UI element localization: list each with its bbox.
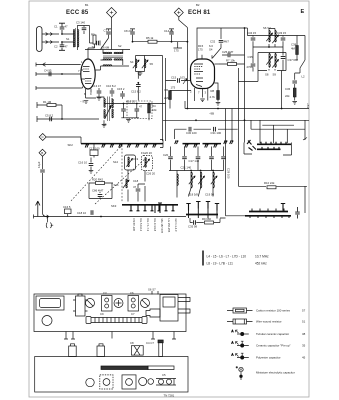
svg-text:47: 47 bbox=[65, 25, 69, 29]
terminal C5 line bbox=[37, 116, 99, 122]
bracket right bbox=[283, 143, 292, 156]
svg-text:LG 150-255: LG 150-255 bbox=[167, 219, 171, 233]
wire stub y88 bbox=[36, 86, 83, 90]
legend wire wound resistor bbox=[227, 321, 253, 323]
coil can2 a bbox=[269, 54, 270, 68]
transformer block bbox=[36, 296, 64, 310]
box C17 bbox=[90, 150, 98, 156]
wire S1 top to C3 bbox=[78, 26, 85, 51]
rail y120.3 bbox=[163, 119, 309, 121]
trimmer box 2 bbox=[128, 296, 139, 312]
svg-text:R9 680: R9 680 bbox=[202, 217, 211, 221]
wire C3 node to grid rail bbox=[84, 26, 90, 44]
coil bank L9 bbox=[201, 172, 202, 188]
svg-text:452 kHz: 452 kHz bbox=[255, 262, 267, 266]
svg-text:C17 100: C17 100 bbox=[89, 147, 100, 151]
series cap in B line bbox=[40, 170, 45, 172]
bus SK2 segment b bbox=[183, 143, 201, 145]
legend ceramic pin-up bbox=[237, 345, 249, 347]
svg-text:C19: C19 bbox=[133, 157, 139, 161]
legend polyester bbox=[237, 357, 249, 359]
svg-text:E: E bbox=[301, 9, 305, 15]
svg-text:C15: C15 bbox=[171, 76, 177, 80]
svg-text:C18 5/8: C18 5/8 bbox=[188, 192, 198, 196]
legend tubular ceramic bbox=[237, 333, 249, 335]
tube V1 top pin bbox=[88, 44, 95, 59]
heater stub 175 bbox=[174, 42, 183, 48]
trimmer circle 3 bbox=[141, 299, 150, 308]
svg-text:4M7: 4M7 bbox=[224, 40, 230, 44]
chassis B outline bbox=[35, 357, 188, 393]
series capacitor C30 bbox=[189, 127, 191, 132]
svg-text:FG20 20: FG20 20 bbox=[141, 151, 152, 155]
legs bbox=[66, 332, 174, 340]
adjust arrow T2 bbox=[105, 105, 111, 118]
svg-text:C32: C32 bbox=[210, 40, 216, 44]
svg-text:47: 47 bbox=[133, 185, 137, 189]
svg-text:KG 9.4-9.8: KG 9.4-9.8 bbox=[153, 219, 157, 232]
wire column drops from SK2 bbox=[171, 147, 224, 157]
wire stub y64.5 with arrow bbox=[36, 63, 81, 67]
T2 leads bbox=[97, 97, 166, 124]
svg-text:175: 175 bbox=[174, 49, 179, 53]
svg-text:4.7k: 4.7k bbox=[210, 95, 216, 99]
cylinder component bbox=[146, 309, 160, 317]
tube V2 internals bbox=[194, 64, 203, 87]
svg-text:TN 7281: TN 7281 bbox=[164, 394, 175, 398]
svg-text:R2: R2 bbox=[91, 33, 95, 37]
svg-text:10k: 10k bbox=[152, 108, 157, 112]
svg-text:C19 98: C19 98 bbox=[205, 192, 214, 196]
legend resistor carbon bbox=[227, 310, 253, 312]
svg-text:C17 140: C17 140 bbox=[189, 159, 200, 163]
symbol diamond node B1 bbox=[107, 8, 117, 18]
svg-text:57: 57 bbox=[302, 309, 306, 313]
svg-text:C21 140: C21 140 bbox=[181, 166, 192, 170]
coil T2 primary bbox=[104, 99, 105, 108]
svg-text:Miniature electrolytic capacit: Miniature electrolytic capacitor bbox=[256, 371, 295, 375]
coil can2 b bbox=[275, 54, 276, 68]
svg-text:R1 1M: R1 1M bbox=[43, 100, 52, 104]
right part bbox=[156, 379, 176, 386]
svg-text:S14: S14 bbox=[113, 160, 118, 164]
svg-text:MG 187-578: MG 187-578 bbox=[160, 219, 164, 234]
svg-text:C3 140: C3 140 bbox=[76, 21, 85, 25]
svg-text:SK3: SK3 bbox=[111, 204, 117, 208]
box C18 on bottom line bbox=[65, 209, 72, 214]
terminal R1 line bbox=[37, 102, 62, 108]
bank1 bar b bbox=[257, 148, 281, 150]
circles right bbox=[139, 378, 147, 386]
coil bank small bbox=[177, 174, 178, 185]
ground trimmers bbox=[138, 73, 143, 76]
connector arcs bbox=[46, 218, 53, 229]
wire node C to SK2 bbox=[46, 137, 81, 144]
capacitor C7 vertical bbox=[106, 29, 111, 38]
capacitor C25 bbox=[228, 53, 230, 58]
svg-text:C5 8.2: C5 8.2 bbox=[45, 114, 54, 118]
top pins bbox=[69, 346, 77, 357]
svg-text:175: 175 bbox=[198, 48, 203, 52]
gram sub circuit bbox=[190, 216, 245, 223]
capacitor C1 bbox=[59, 23, 65, 34]
caps under AVC line bbox=[121, 104, 139, 118]
coil can1 b bbox=[275, 31, 276, 42]
svg-text:51: 51 bbox=[302, 320, 306, 324]
svg-text:S2: S2 bbox=[118, 44, 122, 48]
svg-text:B1: B1 bbox=[85, 3, 89, 7]
symbol diamond node B2 bbox=[174, 8, 183, 17]
svg-text:R20 R42: R20 R42 bbox=[92, 178, 103, 182]
svg-text:C18: C18 bbox=[133, 179, 139, 183]
svg-text:10,7 MHz: 10,7 MHz bbox=[255, 255, 269, 259]
circle b1 bbox=[86, 378, 94, 386]
resistor R1 bbox=[47, 104, 56, 107]
svg-text:C28 100: C28 100 bbox=[227, 168, 231, 179]
capacitor C13 bbox=[97, 91, 102, 93]
capacitor C15 osc bbox=[178, 78, 180, 83]
mechanical link dashed bbox=[71, 145, 122, 201]
svg-text:45: 45 bbox=[302, 356, 306, 360]
svg-text:R5 1k: R5 1k bbox=[146, 36, 154, 40]
svg-text:A: A bbox=[232, 341, 234, 345]
svg-text:C4 C7: C4 C7 bbox=[146, 341, 154, 345]
svg-text:B2: B2 bbox=[196, 3, 200, 7]
line y129.2 right bbox=[251, 120, 305, 129]
capacitor C3 bbox=[83, 26, 85, 35]
bank2 bar b bbox=[245, 215, 291, 217]
wire stub y74 bbox=[36, 72, 81, 76]
svg-text:C6 6M: C6 6M bbox=[101, 46, 110, 50]
switch arrow osc bbox=[183, 79, 187, 85]
wire y28 top bbox=[197, 28, 247, 60]
wire bank rail y170.5 bbox=[169, 170, 224, 172]
svg-text:C25 4M7: C25 4M7 bbox=[222, 50, 234, 54]
svg-text:C16 10: C16 10 bbox=[78, 161, 87, 165]
box b2 bbox=[122, 375, 136, 389]
svg-text:C18 10: C18 10 bbox=[77, 211, 86, 215]
svg-text:C15 8.2: C15 8.2 bbox=[131, 90, 141, 94]
resistor R12 bbox=[296, 46, 299, 55]
series capacitor C35g bbox=[194, 220, 196, 225]
bus y49 bbox=[85, 49, 130, 51]
resistor R5 bbox=[148, 40, 157, 43]
svg-text:35: 35 bbox=[302, 344, 306, 348]
svg-text:S5: S5 bbox=[150, 62, 154, 66]
bank2 bar a bbox=[249, 211, 288, 213]
capacitor C14 bbox=[169, 29, 174, 42]
resistor R8 bbox=[217, 91, 220, 100]
vertical x174.6 bbox=[174, 129, 176, 139]
capacitor col2 bbox=[182, 157, 187, 159]
resistor 22k bbox=[293, 88, 296, 97]
vertical band labels bbox=[132, 219, 178, 234]
inner bar bbox=[101, 366, 148, 370]
resistor R7 bbox=[228, 63, 237, 66]
capacitor C32 bbox=[213, 28, 222, 58]
svg-text:A: A bbox=[232, 329, 234, 333]
svg-text:4M: 4M bbox=[291, 47, 296, 51]
svg-text:C34 15: C34 15 bbox=[247, 31, 256, 35]
capacitor C36 branch bbox=[292, 81, 297, 83]
svg-text:S15: S15 bbox=[114, 183, 119, 187]
line y129.2 left bbox=[175, 128, 238, 130]
bank1 contact arms bbox=[247, 140, 286, 151]
switch arm S2 bbox=[101, 38, 109, 50]
wire y35.5 right bus bbox=[247, 36, 305, 46]
svg-text:B: B bbox=[41, 151, 43, 155]
resistor R9 bbox=[205, 221, 214, 224]
svg-text:C86 4M7: C86 4M7 bbox=[92, 189, 104, 193]
svg-text:L8 - L9 - L7B - L11: L8 - L9 - L7B - L11 bbox=[207, 262, 234, 266]
svg-text:R8: R8 bbox=[211, 89, 215, 93]
bank1 bar a bbox=[257, 143, 291, 145]
tube V1 internals bbox=[83, 67, 90, 72]
svg-text:C6: C6 bbox=[130, 291, 134, 295]
terminal right top bbox=[281, 204, 285, 211]
capacitor C35 bbox=[251, 64, 256, 66]
svg-text:C14 99: C14 99 bbox=[164, 29, 173, 33]
capacitor C4 bbox=[49, 72, 51, 77]
wire left pins bbox=[81, 70, 85, 79]
capacitor C8 bbox=[130, 29, 135, 42]
rail y108.5 bbox=[185, 101, 309, 109]
svg-text:Ceramic capacitor "Pin-up": Ceramic capacitor "Pin-up" bbox=[256, 344, 291, 348]
svg-text:C7: C7 bbox=[131, 312, 135, 316]
tuning coil box 1 bbox=[125, 155, 136, 170]
svg-text:R7 10k: R7 10k bbox=[226, 59, 235, 63]
tube V2 pins bbox=[195, 55, 212, 101]
svg-text:R6: R6 bbox=[165, 88, 169, 92]
resistor R4 bbox=[148, 104, 151, 113]
heater line y98 bbox=[86, 89, 97, 98]
right block bbox=[160, 295, 178, 322]
resistor R2 bbox=[93, 35, 96, 44]
wire C15 branch bbox=[137, 72, 139, 101]
svg-text:ECH 81: ECH 81 bbox=[188, 10, 211, 16]
svg-text:C33 15: C33 15 bbox=[277, 31, 286, 35]
wire node B down bbox=[43, 156, 47, 216]
coil can1 a bbox=[269, 31, 270, 42]
node C bbox=[39, 134, 46, 141]
svg-text:C35: C35 bbox=[248, 55, 254, 59]
svg-text:C8 270: C8 270 bbox=[124, 29, 133, 33]
bus gram thick bbox=[186, 214, 218, 216]
coil anode bbox=[103, 65, 112, 66]
bracket left bbox=[244, 143, 252, 155]
svg-text:C31 100: C31 100 bbox=[211, 131, 222, 135]
short y125 bbox=[262, 124, 294, 126]
terminal capacitor right bbox=[297, 207, 299, 219]
trimmer box 1 bbox=[102, 296, 113, 312]
capacitor C16a bbox=[121, 109, 126, 111]
svg-text:L4 - L5 - L6 - L7 - L7D - L10: L4 - L5 - L6 - L7 - L7D - L10 bbox=[207, 255, 247, 259]
bracket left of mid bank bbox=[160, 140, 163, 148]
svg-text:L2: L2 bbox=[302, 75, 306, 79]
capacitor C2 bbox=[59, 42, 65, 50]
svg-text:175: 175 bbox=[171, 86, 176, 90]
trimmer circle 2 bbox=[114, 299, 123, 308]
svg-text:Tubular ceramic capacitor: Tubular ceramic capacitor bbox=[256, 332, 289, 336]
wire vertical x225 bbox=[225, 109, 227, 216]
wires trimmers bbox=[136, 56, 163, 72]
vertical pair x162.5 x165.5 bbox=[163, 56, 191, 142]
capacitor C37 bbox=[281, 57, 286, 59]
circle left bbox=[42, 316, 52, 326]
wire grid y43 bbox=[90, 42, 96, 44]
svg-text:S4: S4 bbox=[130, 60, 134, 64]
svg-text:GO 1.1-2.0: GO 1.1-2.0 bbox=[174, 219, 178, 232]
bus SK2 segment c bbox=[203, 143, 222, 145]
SK3 contact flags bbox=[130, 205, 175, 211]
svg-text:C5: C5 bbox=[162, 373, 166, 377]
part mid-left bbox=[76, 296, 86, 316]
capacitor grid bbox=[97, 41, 99, 46]
svg-text:C35 98: C35 98 bbox=[188, 225, 197, 229]
node B bbox=[39, 149, 46, 156]
wire diamond B2 feeder bbox=[179, 17, 188, 109]
bus SK3 thick bbox=[122, 204, 178, 206]
capacitor C16m bbox=[89, 164, 94, 166]
svg-text:C16 10: C16 10 bbox=[126, 100, 135, 104]
svg-text:C4 95: C4 95 bbox=[44, 69, 52, 73]
wire grid rail y41.7 bbox=[133, 41, 188, 43]
svg-text:C13 47: C13 47 bbox=[92, 84, 101, 88]
svg-text:47: 47 bbox=[65, 45, 69, 49]
svg-text:C26 20: C26 20 bbox=[146, 172, 155, 176]
capacitor C15 bbox=[120, 94, 125, 96]
ground heater bbox=[84, 101, 89, 104]
svg-text:C20: C20 bbox=[163, 153, 169, 157]
wire antenna upper bbox=[42, 33, 59, 36]
svg-text:C1: C1 bbox=[54, 25, 58, 29]
svg-text:2M2: 2M2 bbox=[164, 96, 170, 100]
svg-text:Carbon resistor 100 series: Carbon resistor 100 series bbox=[256, 309, 290, 313]
arrow up ground bbox=[36, 201, 40, 217]
tube V2 envelope bbox=[191, 59, 215, 89]
tube V1 envelope bbox=[81, 59, 95, 89]
svg-text:R10 22k: R10 22k bbox=[264, 181, 275, 185]
svg-text:A: A bbox=[232, 353, 234, 357]
svg-text:C10 8.2: C10 8.2 bbox=[106, 84, 116, 88]
svg-text:+B1: +B1 bbox=[306, 103, 310, 108]
coil S16 bbox=[126, 179, 127, 188]
svg-text:38: 38 bbox=[302, 332, 306, 336]
svg-text:C8: C8 bbox=[130, 341, 134, 345]
svg-text:C15 2: C15 2 bbox=[117, 87, 125, 91]
svg-text:S8: S8 bbox=[265, 73, 269, 77]
wires S2 ends bbox=[101, 50, 123, 66]
trimmer S5 bbox=[142, 59, 148, 68]
wire diamond B1 feeder bbox=[111, 18, 113, 50]
svg-text:C16 5: C16 5 bbox=[63, 205, 71, 209]
svg-text:C3: C3 bbox=[103, 291, 107, 295]
bus SK2 thick left bbox=[81, 143, 163, 145]
svg-text:22k: 22k bbox=[285, 94, 290, 98]
trimmer circle 1 bbox=[86, 299, 95, 308]
wire antenna lower bbox=[42, 41, 59, 44]
svg-text:C36: C36 bbox=[285, 87, 291, 91]
vertical join x62 bbox=[61, 105, 63, 119]
svg-text:Wire wound resistor: Wire wound resistor bbox=[256, 320, 282, 324]
resistor R6h bbox=[169, 91, 172, 100]
can2 to left rail bbox=[238, 68, 258, 186]
capacitor C5 bbox=[50, 117, 52, 122]
svg-text:S9: S9 bbox=[273, 73, 277, 77]
coil T2 secondary bbox=[112, 99, 113, 108]
wire to T1 bbox=[62, 34, 74, 42]
svg-text:C2: C2 bbox=[54, 45, 58, 49]
wire tube anode to bus bbox=[96, 66, 130, 70]
dashed box C16 R4 bbox=[127, 101, 152, 119]
wire bottom main bbox=[34, 215, 187, 219]
svg-text:ECC 85: ECC 85 bbox=[66, 10, 89, 16]
feeders bbox=[260, 120, 287, 143]
svg-text:103: 103 bbox=[180, 76, 185, 80]
capacitor col3 bbox=[196, 157, 201, 159]
grid leak T bbox=[99, 41, 101, 46]
tuning shaft bbox=[91, 318, 142, 323]
svg-text:S1: S1 bbox=[66, 37, 70, 41]
wire osc injection y80.5 bbox=[166, 80, 191, 82]
svg-text:C9: C9 bbox=[100, 312, 104, 316]
capacitor bottom bbox=[91, 210, 93, 215]
svg-text:C30 100: C30 100 bbox=[186, 131, 197, 135]
coil bank L11 bbox=[213, 172, 214, 188]
svg-text:S6 S7: S6 S7 bbox=[263, 26, 271, 30]
tuning coil box 2 dashed bbox=[142, 156, 153, 171]
series capacitor C31 bbox=[214, 127, 216, 132]
can2 right down bbox=[281, 71, 283, 109]
trimmer S4 bbox=[133, 59, 139, 68]
coil S2 bbox=[103, 52, 112, 53]
svg-text:SK2: SK2 bbox=[68, 143, 74, 147]
gram terminals bbox=[186, 204, 190, 211]
capacitor C10 bbox=[110, 91, 115, 93]
terminal SK3 end bbox=[153, 203, 162, 213]
chassis A outline bbox=[34, 294, 186, 332]
svg-text:Polyester capacitor: Polyester capacitor bbox=[256, 356, 281, 360]
SK2 contacts bbox=[85, 144, 89, 148]
svg-text:S6 S7: S6 S7 bbox=[148, 288, 156, 292]
coil S3 bbox=[103, 59, 112, 60]
svg-text:–9B: –9B bbox=[209, 112, 214, 116]
svg-text:14µF: 14µF bbox=[37, 161, 41, 168]
pointer top bbox=[152, 291, 158, 295]
capacitor col5 bbox=[221, 157, 226, 159]
ground V2 pins bbox=[200, 99, 205, 102]
svg-text:47: 47 bbox=[139, 105, 143, 109]
can2 box bbox=[258, 53, 286, 71]
svg-text:– 9: – 9 bbox=[80, 100, 84, 104]
antenna symbol bbox=[37, 27, 43, 52]
svg-text:FM 87-100: FM 87-100 bbox=[132, 219, 136, 232]
svg-text:C7: C7 bbox=[104, 29, 108, 33]
dashed box bbox=[100, 375, 113, 389]
capacitor C16c bbox=[135, 109, 140, 111]
capacitor col1 bbox=[168, 157, 173, 159]
capacitor C34 bbox=[251, 38, 256, 40]
svg-text:KG 7.1-7.3: KG 7.1-7.3 bbox=[146, 219, 150, 232]
legend electrolytic bbox=[239, 367, 243, 371]
capacitor C15b bbox=[136, 85, 141, 87]
resistor R10 bbox=[267, 186, 276, 189]
capacitor C33 bbox=[281, 38, 286, 40]
svg-text:KG 5.9-6.2: KG 5.9-6.2 bbox=[139, 219, 143, 232]
coil bank L8 bbox=[191, 172, 192, 188]
capacitor col4 bbox=[209, 157, 214, 159]
svg-text:S4: S4 bbox=[209, 48, 213, 52]
